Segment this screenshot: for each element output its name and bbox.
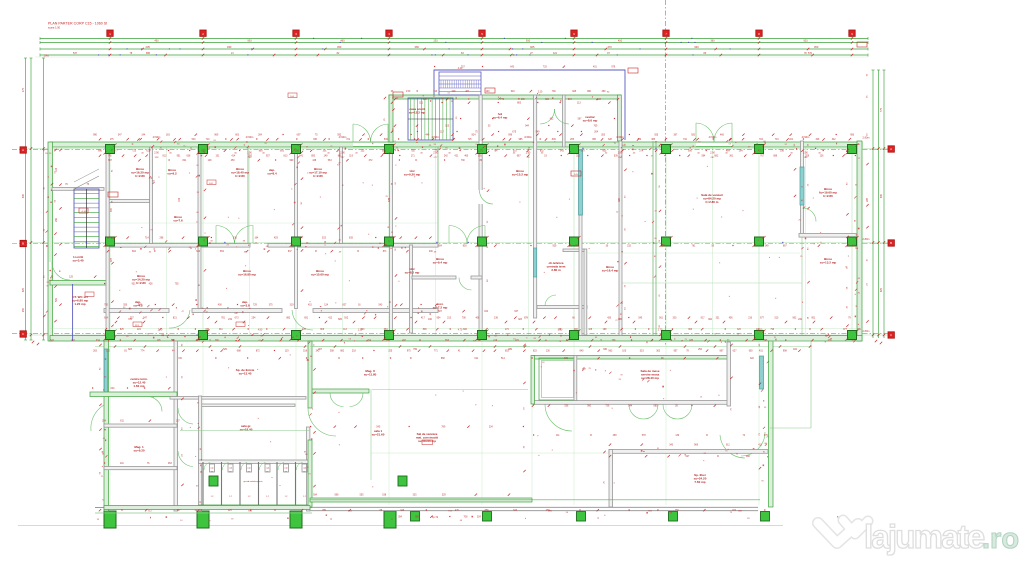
svg-text:4=90m: 4=90m [616, 136, 624, 139]
svg-text:2.80m: 2.80m [863, 330, 870, 333]
svg-text:360: 360 [415, 45, 420, 49]
svg-text:576: 576 [808, 52, 813, 55]
svg-text:775: 775 [880, 107, 883, 112]
svg-text:2.90: 2.90 [247, 153, 252, 155]
svg-text:su=15.2 mp: su=15.2 mp [512, 173, 529, 177]
svg-text:su=3.8: su=3.8 [240, 304, 250, 308]
svg-text:2.80m: 2.80m [863, 137, 870, 140]
svg-text:925: 925 [880, 287, 883, 292]
svg-text:470: 470 [607, 45, 612, 49]
svg-text:1.60 mp: 1.60 mp [133, 384, 144, 388]
svg-text:su=8.6 mp: su=8.6 mp [583, 119, 598, 123]
svg-text:2.20: 2.20 [538, 92, 543, 94]
svg-text:h=2.80: h=2.80 [235, 174, 245, 178]
svg-text:2.90: 2.90 [710, 153, 715, 155]
svg-text:930: 930 [227, 45, 232, 49]
svg-text:930: 930 [694, 45, 699, 49]
svg-text:2.70: 2.70 [158, 330, 163, 332]
svg-text:1.50: 1.50 [406, 91, 411, 93]
svg-text:1.20 mp: 1.20 mp [74, 302, 85, 306]
svg-text:wc: wc [211, 471, 214, 473]
svg-text:gresie antiderapanta: gresie antiderapanta [244, 480, 264, 483]
svg-text:wc: wc [229, 471, 232, 473]
svg-text:C: C [890, 333, 892, 337]
svg-text:2.70: 2.70 [658, 330, 663, 332]
svg-text:su=21.60: su=21.60 [372, 433, 385, 437]
svg-text:.ro: .ro [982, 523, 1019, 555]
svg-text:A: A [890, 147, 892, 151]
svg-text:4.80: 4.80 [258, 330, 263, 332]
svg-text:wc: wc [248, 471, 251, 473]
svg-text:925: 925 [530, 45, 535, 49]
svg-text:465: 465 [340, 39, 345, 43]
svg-text:925: 925 [22, 287, 25, 292]
svg-text:895: 895 [146, 52, 151, 55]
svg-text:su=9.20 mp: su=9.20 mp [404, 173, 421, 177]
svg-text:wc: wc [303, 471, 306, 473]
svg-text:su=3.40: su=3.40 [72, 259, 83, 263]
svg-text:h=2.80: h=2.80 [823, 194, 833, 198]
svg-text:930: 930 [22, 193, 25, 198]
svg-text:930: 930 [880, 193, 883, 198]
svg-text:235: 235 [146, 45, 151, 49]
svg-text:su=9.20: su=9.20 [133, 449, 144, 453]
svg-text:su=9.4 mp: su=9.4 mp [433, 261, 448, 265]
svg-text:h=2.80 m: h=2.80 m [706, 200, 719, 204]
svg-text:450: 450 [618, 39, 623, 43]
svg-text:B: B [22, 242, 24, 246]
svg-text:421: 421 [553, 52, 558, 55]
svg-text:2.90: 2.90 [526, 153, 531, 155]
svg-text:4=90m: 4=90m [524, 136, 532, 139]
svg-text:450: 450 [337, 45, 342, 49]
svg-text:235: 235 [433, 39, 438, 43]
svg-text:h=2.80: h=2.80 [313, 174, 323, 178]
svg-text:h=2.80: h=2.80 [136, 281, 146, 285]
svg-text:2.80 m: 2.80 m [551, 268, 561, 272]
svg-text:2.80m: 2.80m [863, 238, 870, 241]
svg-text:4=90m: 4=90m [802, 136, 810, 139]
svg-text:450: 450 [154, 39, 159, 43]
svg-text:su=11.80: su=11.80 [364, 373, 377, 377]
svg-text:+0.00: +0.00 [81, 211, 87, 213]
svg-text:1.Ra: 1.Ra [43, 55, 49, 58]
svg-text:4=90m: 4=90m [246, 136, 254, 139]
svg-text:scara 1:50: scara 1:50 [48, 26, 61, 30]
svg-text:175: 175 [22, 87, 25, 92]
svg-text:4=90m: 4=90m [709, 136, 717, 139]
svg-text:PLAN PARTER CORP C15 - 1060 St: PLAN PARTER CORP C15 - 1060 St [48, 22, 107, 26]
svg-text:su=8.2 mp: su=8.2 mp [405, 271, 420, 275]
svg-text:su=18.40: su=18.40 [240, 428, 253, 432]
svg-text:A: A [22, 148, 24, 152]
svg-text:lajumate: lajumate [864, 518, 985, 555]
svg-text:930: 930 [526, 39, 531, 43]
svg-text:wc: wc [285, 471, 288, 473]
svg-text:h=2.80: h=2.80 [135, 174, 145, 178]
svg-text:5p.7d: 5p.7d [432, 516, 439, 519]
svg-text:2.90: 2.90 [340, 153, 345, 155]
svg-text:360: 360 [710, 39, 715, 43]
svg-text:C: C [22, 332, 24, 336]
svg-text:su=28.40 mp: su=28.40 mp [641, 376, 659, 380]
svg-text:2.90: 2.90 [154, 153, 159, 155]
svg-text:7.60 mp: 7.60 mp [694, 480, 705, 484]
svg-text:su=13.40: su=13.40 [239, 372, 252, 376]
svg-text:4=90m: 4=90m [432, 136, 440, 139]
svg-text:su=12.2 mp: su=12.2 mp [409, 111, 426, 115]
svg-text:930: 930 [247, 39, 252, 43]
svg-text:su=13.2 mp: su=13.2 mp [820, 261, 837, 265]
svg-text:2.90: 2.90 [433, 153, 438, 155]
svg-text:wc: wc [266, 471, 269, 473]
svg-text:2.90: 2.90 [803, 153, 808, 155]
svg-text:su=16.4 mp: su=16.4 mp [602, 269, 619, 273]
svg-text:su=9.2: su=9.2 [167, 172, 177, 176]
svg-text:925: 925 [803, 39, 808, 43]
svg-text:su=6.4 mp: su=6.4 mp [493, 116, 508, 120]
svg-text:su=15.60 mp: su=15.60 mp [311, 273, 329, 277]
svg-text:250: 250 [22, 307, 25, 312]
svg-text:su=7.6: su=7.6 [173, 219, 183, 223]
svg-text:2.90: 2.90 [618, 153, 623, 155]
svg-text:450: 450 [814, 45, 819, 49]
svg-text:B: B [890, 241, 892, 245]
svg-text:537: 537 [73, 52, 78, 55]
svg-text:su=16.80 mp: su=16.80 mp [238, 273, 256, 277]
svg-text:su=8.4: su=8.4 [267, 172, 277, 176]
